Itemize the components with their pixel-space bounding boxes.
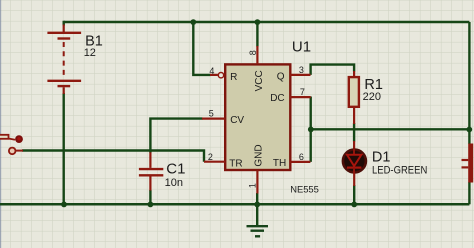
pin 6 number [299,152,304,162]
pin 6 stub [290,161,310,163]
pin 1 stub [256,171,258,194]
svg-text:GND: GND [253,144,264,166]
pin 4 stub red [210,74,218,76]
LED D1 [343,141,366,186]
button SW actuator bar [0,135,9,139]
value 220 [363,91,381,103]
button SW link [9,139,16,140]
wire CV branch [150,119,202,153]
svg-text:NE555: NE555 [290,184,319,195]
svg-text:1: 1 [248,183,258,188]
wire reset pin drop [193,22,210,75]
svg-text:5: 5 [209,109,214,119]
right edge component pin stubs [462,160,469,167]
wire battery drop to ground bus [63,21,65,205]
wire right vertical drop [468,22,470,144]
wire vcc pin drop [256,22,258,47]
node junction mid rail left [308,126,314,132]
pin name Q [277,71,285,82]
pin 5 stub [202,117,225,119]
svg-text:3: 3 [299,65,304,75]
wire switch to TR step [22,151,204,162]
label D1 [372,149,391,165]
node junction bus LED [351,202,357,208]
node junction top vcc [255,19,261,25]
pin name DC [270,93,284,104]
right edge component body [468,144,473,183]
pin name TH [273,158,286,169]
left window edge line [0,0,1,248]
svg-text:U1: U1 [292,38,311,55]
wire top power rail [64,21,470,24]
svg-text:220: 220 [363,91,381,103]
pin name CV [230,115,244,126]
pin name VCC rotated [254,70,265,91]
svg-text:CV: CV [230,115,244,126]
button SW contact circle [9,148,16,155]
svg-text:12: 12 [84,47,96,59]
op-amp U1 NE555 body [225,64,290,170]
svg-text:TH: TH [273,158,286,169]
node junction bus gnd [254,202,260,208]
pin name GND rotated [253,144,264,166]
value 10n [165,177,183,189]
svg-text:DC: DC [270,93,284,104]
svg-text:LED-GREEN: LED-GREEN [372,164,427,176]
pin name R [230,72,237,83]
node junction mid rail right [466,127,472,133]
svg-text:R: R [230,72,237,83]
pin 2 stub [204,161,225,163]
label C1 [166,161,185,178]
wire LED cathode to bus [353,185,355,204]
svg-text:VCC: VCC [254,70,265,91]
wire IC gnd to bus [256,193,258,204]
pin 8 number [248,50,258,55]
pin name TR [229,159,242,170]
button SW marker blob [15,135,23,143]
node junction bus C1 [148,202,154,208]
label NE555 [290,184,319,195]
label R1 [364,77,383,93]
pin 7 stub [290,96,311,98]
svg-text:TR: TR [229,159,242,170]
svg-text:6: 6 [299,152,304,162]
wire Q output step to R1 [311,65,355,75]
svg-text:10n: 10n [165,177,183,189]
wire R1 to LED [353,123,355,142]
pin 7 number [300,87,305,97]
node junction bus battery [61,202,67,208]
wire right vertical to ground bus [468,182,470,204]
label B1 [85,33,103,49]
pin 5 number [209,109,214,119]
svg-text:8: 8 [248,50,258,55]
node junction top reset [190,19,196,25]
pin 3 stub [290,74,311,76]
value LED-GREEN [372,164,427,176]
label U1 [292,38,311,55]
wire bottom ground bus [0,203,469,206]
ground [247,204,269,236]
svg-text:D1: D1 [372,149,391,165]
button SW pin [16,150,23,152]
pin 8 stub [256,46,258,64]
resistor R1 [349,71,359,124]
svg-text:C1: C1 [166,161,185,178]
pin 4 reset bubble [218,73,223,78]
wire mid right rail pins 6 7 [311,128,470,130]
pin 2 number [208,152,213,162]
value 12 [84,47,96,59]
wire C1 bottom to bus [149,190,151,204]
svg-text:Q: Q [277,71,285,82]
pin 4 number [209,66,214,76]
pin 3 number [299,65,304,75]
wire DC TH vertical [310,97,312,162]
pin 1 number [248,183,258,188]
svg-text:7: 7 [300,87,305,97]
capacitor C1 [139,152,163,190]
svg-text:2: 2 [208,152,213,162]
battery B1 [47,25,81,95]
svg-text:4: 4 [209,66,214,76]
